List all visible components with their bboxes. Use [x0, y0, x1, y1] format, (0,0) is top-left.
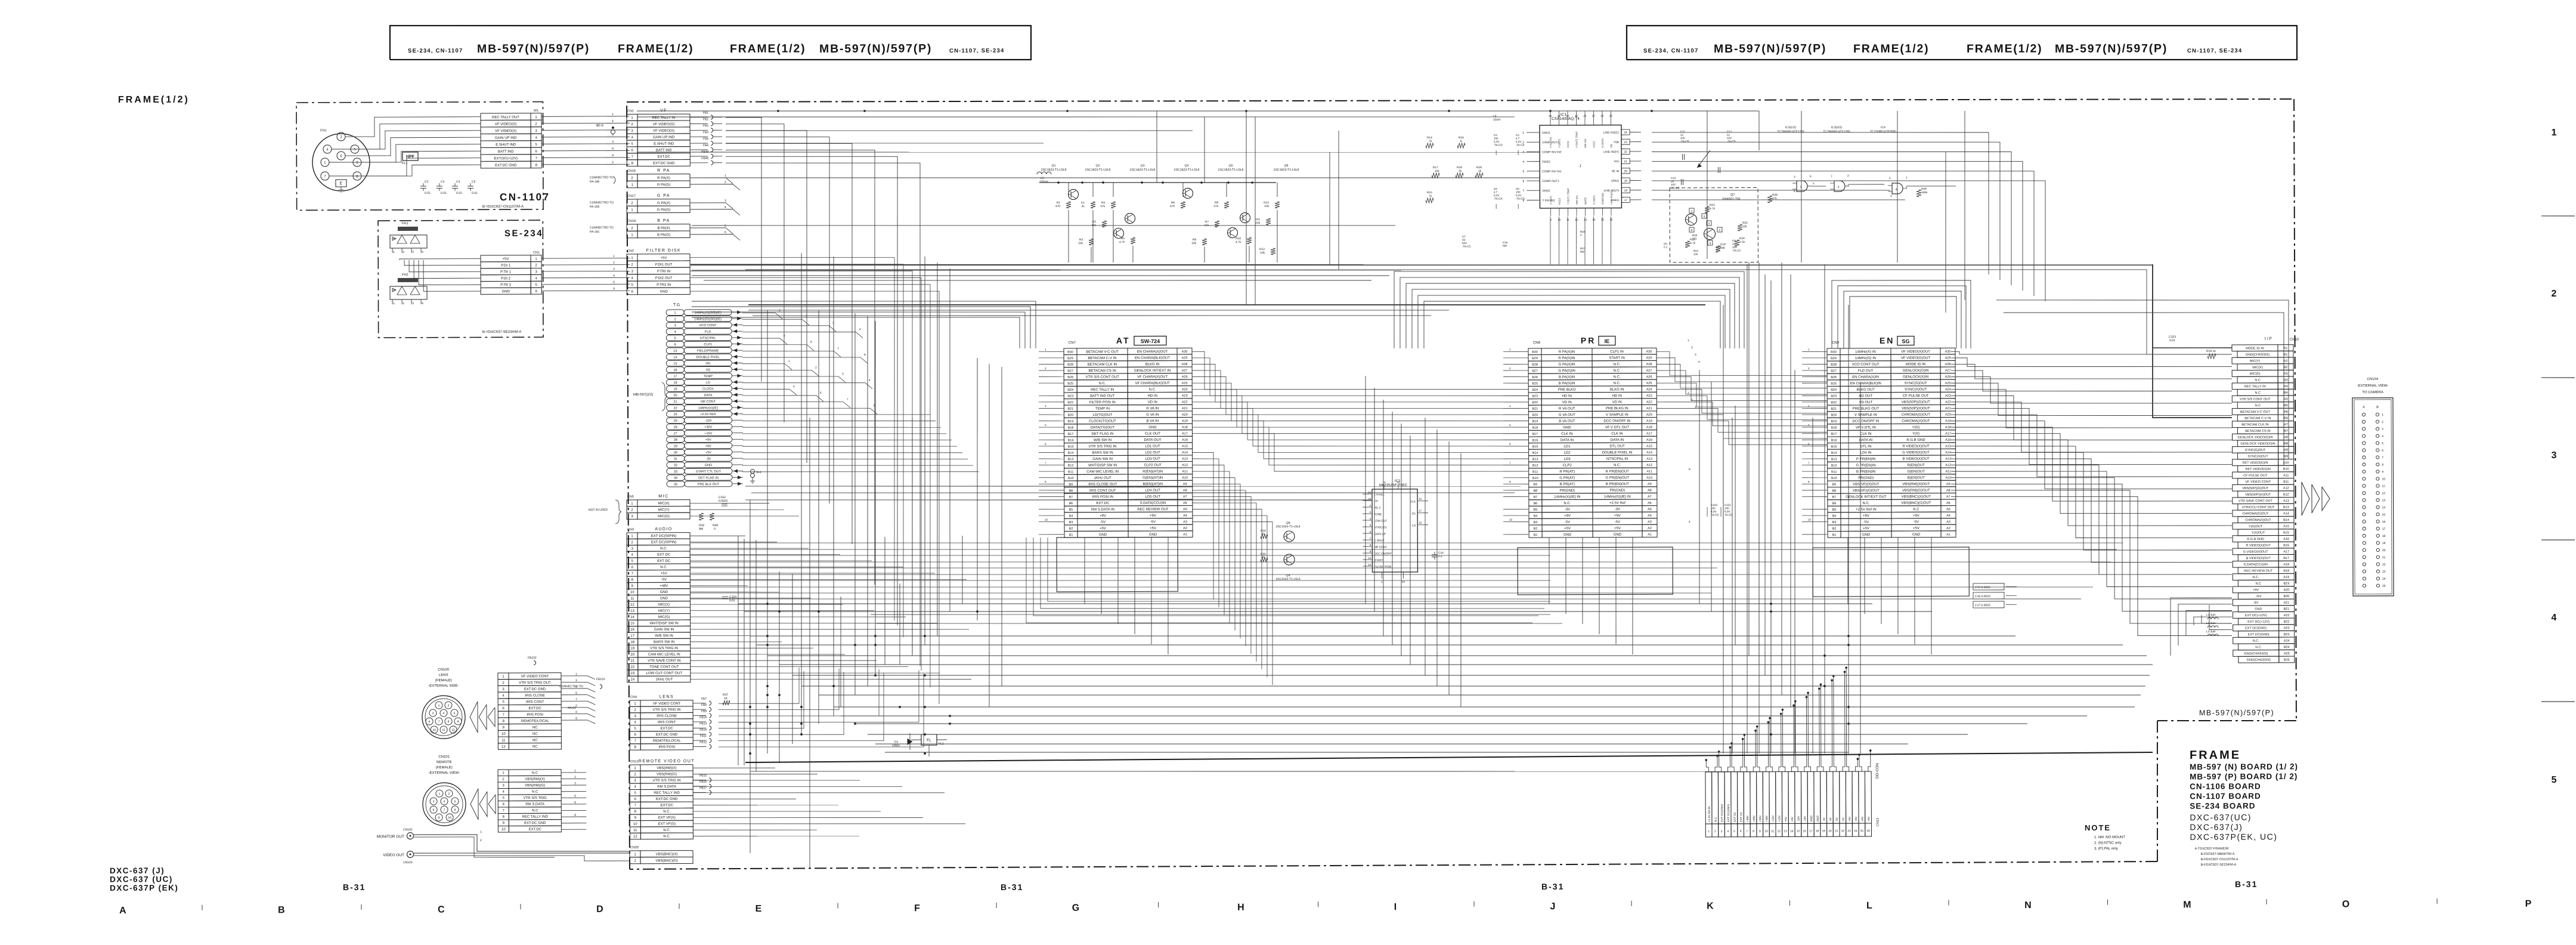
svg-text:A8: A8 — [1183, 489, 1187, 492]
svg-text:VF VIDEO(G)OUT: VF VIDEO(G)OUT — [1901, 357, 1931, 360]
svg-text:WHT/DISP SW IN: WHT/DISP SW IN — [1088, 464, 1117, 468]
svg-text:VBS(BNC)(G): VBS(BNC)(G) — [655, 859, 677, 863]
svg-text:B24: B24 — [1532, 388, 1538, 392]
vertical bundle between PR and EN — [1687, 262, 1792, 708]
svg-text:FLD OUT: FLD OUT — [1858, 369, 1874, 373]
svg-text:CONNECTED TO: CONNECTED TO — [559, 685, 583, 688]
svg-text:B3: B3 — [2284, 378, 2288, 382]
svg-text:5: 5 — [1889, 177, 1891, 180]
svg-text:EXT.DC: EXT.DC — [661, 727, 674, 730]
svg-text:B28: B28 — [1067, 363, 1073, 367]
svg-text:GND(CHASSIS): GND(CHASSIS) — [2247, 659, 2271, 662]
svg-text:PRE BLKG OUT: PRE BLKG OUT — [1853, 407, 1880, 410]
svg-text:F: F — [914, 903, 920, 913]
svg-text:4.7k: 4.7k — [1710, 207, 1716, 211]
svg-text:10: 10 — [432, 728, 436, 732]
svg-text:P.DI 2: P.DI 2 — [501, 277, 511, 280]
svg-text:220uH: 220uH — [1039, 180, 1048, 184]
svg-text:LOW CUT CONT OUT: LOW CUT CONT OUT — [646, 672, 683, 675]
svg-text:D: D — [596, 904, 603, 915]
svg-text:GND: GND — [1810, 815, 1813, 822]
svg-text:B6: B6 — [1069, 502, 1073, 505]
resistors around Q7 — [1685, 203, 1748, 252]
svg-text:CLOCK: CLOCK — [702, 387, 714, 391]
svg-text:1: 1 — [480, 830, 482, 834]
svg-text:EXT.DC GND: EXT.DC GND — [495, 164, 517, 168]
svg-text:SE-234, CN-1107: SE-234, CN-1107 — [1643, 48, 1699, 54]
svg-text:B VA OUT: B VA OUT — [1559, 420, 1575, 424]
svg-text:100: 100 — [1724, 507, 1729, 509]
svg-text:B10: B10 — [1831, 477, 1837, 480]
svg-text:B19: B19 — [2283, 582, 2289, 586]
svg-text:B16: B16 — [1831, 438, 1837, 442]
svg-text:VCO CONT OUT: VCO CONT OUT — [1852, 363, 1880, 366]
caps C11 C12 C13 right of IC1 — [1671, 130, 1736, 190]
svg-text:A1: A1 — [2284, 347, 2288, 350]
svg-text:15: 15 — [1797, 829, 1800, 833]
svg-text:A6: A6 — [1183, 501, 1187, 505]
svg-text:R27: R27 — [1580, 247, 1586, 250]
svg-text:Q7: Q7 — [1730, 193, 1735, 197]
svg-text:D1: D1 — [1412, 512, 1416, 515]
svg-text:R17: R17 — [1433, 166, 1438, 169]
svg-text:B6: B6 — [2284, 416, 2288, 420]
svg-text:Q2: Q2 — [1096, 164, 1100, 168]
svg-text:31: 31 — [674, 458, 677, 461]
svg-text:A8: A8 — [2284, 436, 2288, 439]
svg-text:R26: R26 — [1580, 230, 1586, 233]
svg-text:VD OUT: VD OUT — [1859, 401, 1872, 404]
svg-text:N.C.: N.C. — [660, 566, 667, 569]
svg-text:B23: B23 — [1067, 394, 1073, 398]
svg-text:-10V: -10V — [1797, 816, 1800, 822]
svg-text:+2.5V Ref IN: +2.5V Ref IN — [1856, 508, 1877, 512]
svg-text:22k: 22k — [1255, 221, 1260, 225]
svg-text:CLK: CLK — [1410, 500, 1416, 504]
svg-text:G PA(X): G PA(X) — [657, 202, 670, 205]
svg-text:LD2: LD2 — [1564, 451, 1571, 455]
svg-text:7: 7 — [1808, 462, 1810, 465]
svg-text:2: 2 — [815, 366, 817, 369]
svg-text:0.0022: 0.0022 — [719, 499, 728, 503]
svg-text:A18: A18 — [2283, 563, 2289, 567]
svg-text:A14: A14 — [1646, 451, 1652, 455]
svg-text:EXT.DC: EXT.DC — [661, 804, 674, 807]
svg-text:6: 6 — [1808, 443, 1810, 446]
svg-text:-5V: -5V — [1565, 521, 1570, 524]
svg-text:R21: R21 — [1693, 249, 1699, 252]
svg-text:R VIDEO(X)OUT: R VIDEO(X)OUT — [2246, 544, 2271, 548]
svg-text:-5V: -5V — [1835, 817, 1838, 822]
svg-text:12: 12 — [1368, 557, 1371, 560]
svg-text:M: M — [2183, 900, 2191, 910]
svg-text:S.DATA(CCU)IN: S.DATA(CCU)IN — [2244, 563, 2268, 567]
svg-text:B22: B22 — [1532, 401, 1538, 404]
svg-text:10k: 10k — [1264, 205, 1269, 208]
svg-text:8: 8 — [1808, 480, 1810, 483]
svg-text:A4: A4 — [1648, 514, 1652, 518]
svg-text:6: 6 — [810, 341, 812, 344]
svg-text:C17 0.0022: C17 0.0022 — [1975, 604, 1990, 607]
svg-text:PA-190: PA-190 — [590, 180, 600, 184]
svg-text:10: 10 — [2382, 477, 2385, 481]
svg-text:3: 3 — [612, 140, 614, 144]
svg-text:CLK IN: CLK IN — [1611, 432, 1623, 436]
svg-text:N.C.: N.C. — [1714, 817, 1717, 822]
svg-text:11: 11 — [1566, 218, 1569, 221]
svg-text:GND: GND — [1099, 533, 1107, 537]
svg-text:20: 20 — [630, 653, 634, 657]
svg-text:A14: A14 — [1945, 451, 1951, 455]
svg-text:19: 19 — [630, 647, 634, 650]
svg-text:25: 25 — [2382, 585, 2386, 588]
junction dots on top rail — [777, 110, 779, 112]
cable triangles — [470, 702, 495, 733]
svg-text:B5: B5 — [1534, 508, 1538, 512]
svg-text:BLKG OUT: BLKG OUT — [1857, 388, 1875, 392]
svg-text:N: N — [2024, 900, 2032, 910]
svg-text:CLK IN: CLK IN — [1561, 433, 1572, 436]
svg-text:B VIDEO(X)OUT: B VIDEO(X)OUT — [1903, 458, 1930, 461]
svg-text:B22: B22 — [1831, 401, 1837, 404]
svg-text:MB-597 (N) BOARD (1/ 2): MB-597 (N) BOARD (1/ 2) — [2190, 762, 2298, 771]
svg-text:E.SHUT IND: E.SHUT IND — [654, 142, 674, 146]
svg-text:FRAME(1/2): FRAME(1/2) — [118, 95, 190, 105]
svg-text:A2: A2 — [1946, 527, 1950, 530]
svg-text:470: 470 — [1170, 205, 1175, 208]
svg-text:G OUT2: G OUT2 — [1601, 138, 1604, 147]
svg-text:-EXTERNAL VIEW-: -EXTERNAL VIEW- — [429, 771, 460, 775]
svg-text:MB-597 (P) BOARD (1/ 2): MB-597 (P) BOARD (1/ 2) — [2190, 772, 2298, 782]
svg-text:FILTER POSI: FILTER POSI — [1374, 565, 1391, 569]
svg-text:VF VIDEO(G): VF VIDEO(G) — [495, 123, 517, 126]
svg-text:2: 2 — [612, 160, 614, 164]
svg-text:19: 19 — [2382, 542, 2386, 545]
svg-text:0.1: 0.1 — [1664, 245, 1668, 248]
shield terminal E — [336, 180, 346, 187]
svg-text:VTR S/S TRIG IN: VTR S/S TRIG IN — [653, 708, 681, 712]
svg-text:PA-165: PA-165 — [590, 205, 600, 209]
svg-text:P.TRI IN: P.TRI IN — [657, 270, 670, 273]
svg-text:A20: A20 — [1646, 413, 1652, 417]
svg-text:16: 16 — [630, 628, 634, 632]
svg-text:R.G.B GND: R.G.B GND — [2247, 538, 2264, 541]
svg-text:B3: B3 — [1832, 521, 1837, 524]
svg-text:8: 8 — [2382, 463, 2383, 467]
svg-text:A22: A22 — [1182, 400, 1188, 404]
svg-text:18: 18 — [1816, 829, 1819, 833]
svg-text::TA-CB: :TA-CB — [1727, 140, 1735, 143]
svg-text:1KHz OUT: 1KHz OUT — [655, 678, 673, 681]
svg-text:-EXTERNAL SIDE-: -EXTERNAL SIDE- — [428, 684, 459, 688]
svg-text:A15: A15 — [1945, 444, 1951, 448]
svg-text:P.DI 1: P.DI 1 — [501, 264, 511, 268]
svg-text:R12: R12 — [1259, 248, 1265, 251]
svg-text:HD IN: HD IN — [1612, 394, 1622, 398]
svg-text:B-31: B-31 — [1541, 882, 1564, 891]
svg-text:7: 7 — [1831, 175, 1832, 178]
svg-text:7: 7 — [1509, 462, 1511, 465]
svg-text:+9V: +9V — [1867, 816, 1870, 822]
connector CN8 PR (IE) — [1528, 335, 1657, 538]
svg-text:9: 9 — [1759, 830, 1761, 833]
svg-text:EN CHARA(BLK)IN: EN CHARA(BLK)IN — [1850, 382, 1881, 385]
svg-text:A9: A9 — [1648, 483, 1652, 486]
svg-text:23: 23 — [2382, 570, 2386, 574]
svg-text:REMOTE/LOCAL: REMOTE/LOCAL — [521, 719, 550, 723]
svg-text:COMP INV IN2: COMP INV IN2 — [1542, 150, 1562, 154]
svg-text:22k: 22k — [1078, 242, 1083, 245]
svg-text:VBS(RM)(X)OUT: VBS(RM)(X)OUT — [1902, 483, 1930, 486]
op-amp/encoder IC1 CXA1409AQ-T4 — [1522, 112, 1641, 221]
svg-text:G PR(AT): G PR(AT) — [1559, 477, 1575, 480]
svg-text:CN8: CN8 — [1533, 341, 1541, 345]
svg-text:A22: A22 — [2284, 614, 2290, 617]
svg-text:A11: A11 — [1945, 470, 1950, 474]
svg-text:VF CHARA(BLK)OUT: VF CHARA(BLK)OUT — [1135, 382, 1170, 385]
connector CN103 VIDEO OUT — [383, 851, 413, 865]
svg-text:-3V: -3V — [1615, 508, 1620, 511]
svg-text:+5V: +5V — [1854, 816, 1857, 822]
svg-text:4: 4 — [2551, 613, 2556, 623]
svg-text:18: 18 — [673, 381, 677, 385]
svg-text:CAM MIC LEVEL IN: CAM MIC LEVEL IN — [648, 653, 680, 656]
svg-text:41: 41 — [1082, 205, 1085, 208]
svg-text:28: 28 — [674, 438, 677, 442]
svg-text:L: L — [1866, 901, 1872, 911]
svg-text:A28: A28 — [1945, 363, 1951, 366]
svg-text:VIDEO OUT: VIDEO OUT — [383, 853, 404, 857]
svg-text:NTSC/PAL: NTSC/PAL — [700, 336, 716, 340]
svg-text:0.1k: 0.1k — [1739, 240, 1745, 244]
svg-text:B14: B14 — [2283, 518, 2289, 522]
svg-text:B-FDXC637-CN1107/M-A: B-FDXC637-CN1107/M-A — [2201, 858, 2238, 861]
svg-text:22: 22 — [1624, 150, 1627, 154]
resistors R1-R13 — [1055, 200, 1280, 256]
svg-text:2SC1623-T1-L5L6: 2SC1623-T1-L5L6 — [1130, 168, 1156, 172]
photo interrupter PH2 — [390, 273, 427, 305]
svg-text:MIC(Y): MIC(Y) — [2250, 360, 2261, 363]
svg-text:B26: B26 — [1532, 376, 1538, 379]
svg-text:W/B SW IN: W/B SW IN — [655, 634, 673, 638]
svg-text:EXT DC(50PIN): EXT DC(50PIN) — [651, 541, 677, 544]
svg-text:TEMP: TEMP — [704, 375, 713, 378]
svg-text:C: C — [438, 904, 445, 915]
svg-text:Q4: Q4 — [1185, 164, 1189, 168]
svg-text:14MHz(G)(IE) IN: 14MHz(G)(IE) IN — [1604, 495, 1631, 499]
loops below AT — [1026, 536, 1550, 625]
svg-text:5: 5 — [1813, 182, 1815, 186]
wires CN1 circle to W1 table — [329, 117, 481, 177]
svg-text:10: 10 — [630, 591, 634, 594]
svg-text:C1: C1 — [1081, 201, 1085, 205]
svg-text:EXT DC: EXT DC — [657, 560, 671, 563]
svg-text:MIC(X): MIC(X) — [658, 502, 669, 505]
svg-text:+9V: +9V — [1614, 514, 1621, 518]
svg-text:VF VIDEO CONT: VF VIDEO CONT — [653, 702, 681, 706]
svg-text:B14: B14 — [1068, 452, 1074, 455]
svg-text:NOTE: NOTE — [2085, 823, 2111, 832]
svg-text:MIX IN2: MIX IN2 — [1584, 138, 1587, 148]
svg-text:LENS: LENS — [439, 674, 448, 677]
svg-text:MIC(X): MIC(X) — [658, 603, 670, 607]
svg-text:A16: A16 — [2283, 538, 2289, 541]
svg-text:LD: LD — [706, 381, 710, 385]
svg-text:15: 15 — [1601, 218, 1605, 221]
svg-text:4: 4 — [1698, 360, 1700, 364]
svg-text:GND: GND — [660, 591, 668, 594]
svg-text:A19: A19 — [1945, 419, 1951, 423]
svg-text:11: 11 — [1397, 481, 1400, 484]
svg-text:-5V: -5V — [2253, 601, 2259, 605]
svg-text:P: P — [2525, 899, 2532, 909]
svg-text:B5: B5 — [1069, 508, 1073, 512]
svg-text:B10: B10 — [1532, 477, 1538, 480]
svg-text:CN16: CN16 — [627, 169, 636, 173]
svg-text:A3: A3 — [1183, 520, 1187, 524]
svg-text:B19: B19 — [1831, 420, 1837, 424]
svg-text:VCO CONT: VCO CONT — [699, 324, 717, 328]
svg-text:10V: 10V — [1680, 137, 1685, 140]
svg-text:1: 1 — [574, 769, 576, 773]
svg-text:B26: B26 — [1831, 376, 1837, 379]
svg-text:DXC-637P(EK, UC): DXC-637P(EK, UC) — [2190, 832, 2277, 842]
svg-text:REC TALLY OUT: REC TALLY OUT — [492, 116, 519, 119]
bold rail corner into I/F A1 — [2152, 265, 2231, 348]
svg-text:A29: A29 — [1646, 356, 1652, 360]
svg-text:A21: A21 — [1646, 407, 1652, 410]
svg-text:A24: A24 — [1182, 388, 1188, 391]
svg-text:-5V: -5V — [1100, 521, 1106, 524]
svg-text:IRIS CLOSE: IRIS CLOSE — [657, 715, 677, 718]
svg-text:RET VIDEO(X)IN: RET VIDEO(X)IN — [2245, 468, 2270, 471]
svg-text:+5V: +5V — [1150, 527, 1156, 530]
svg-text:G VIDEO(X)OUT: G VIDEO(X)OUT — [1902, 451, 1930, 455]
svg-text:B15: B15 — [1532, 445, 1538, 449]
svg-text:B-YDXC637-SE234/M-A: B-YDXC637-SE234/M-A — [482, 331, 521, 334]
svg-text:2: 2 — [1691, 399, 1693, 402]
svg-text:PH1: PH1 — [402, 222, 408, 226]
svg-text:B PA(X)IN: B PA(X)IN — [1559, 376, 1575, 379]
svg-text:MIC(Y): MIC(Y) — [658, 609, 670, 613]
svg-text:5: 5 — [1704, 215, 1705, 218]
svg-text:B25: B25 — [1532, 382, 1538, 385]
svg-text:22: 22 — [630, 666, 634, 669]
svg-text:FB4: FB4 — [703, 131, 708, 134]
svg-text:24: 24 — [2382, 577, 2386, 581]
svg-text:2SC1623-T1-L5L6: 2SC1623-T1-L5L6 — [1041, 168, 1067, 172]
svg-text:+5V: +5V — [1863, 527, 1869, 530]
svg-text:NM: NM — [1720, 246, 1724, 250]
svg-text:CN1: CN1 — [627, 109, 634, 113]
svg-text:1: 1 — [1906, 176, 1908, 180]
svg-text:C6: C6 — [1516, 187, 1519, 190]
connector table CN100 — [498, 673, 561, 750]
svg-text:2: 2 — [613, 261, 615, 265]
svg-text:START CTL OUT: START CTL OUT — [696, 470, 722, 474]
svg-text:A4: A4 — [1183, 514, 1187, 518]
svg-text:PRE BLKG IN: PRE BLKG IN — [1606, 407, 1628, 410]
svg-text:VBS(50P)(G)OUT: VBS(50P)(G)OUT — [1902, 401, 1930, 404]
svg-text:10: 10 — [1509, 518, 1513, 521]
svg-text:21: 21 — [1835, 829, 1838, 833]
svg-text:IC3(2/2): IC3(2/2) — [1831, 126, 1842, 129]
svg-text:8: 8 — [574, 814, 576, 817]
svg-text:0.01: 0.01 — [425, 192, 431, 195]
svg-text:NC: NC — [532, 726, 538, 730]
svg-text:DXC-637P (EK): DXC-637P (EK) — [110, 884, 178, 892]
risers from buses to I/F lower rows — [2171, 598, 2233, 656]
svg-text:20: 20 — [673, 394, 677, 397]
svg-text:25: 25 — [1860, 829, 1864, 833]
svg-text:CONNECTED TO: CONNECTED TO — [590, 226, 614, 230]
svg-text:24: 24 — [674, 413, 677, 416]
svg-text::TA-CA: :TA-CA — [1494, 197, 1502, 200]
svg-text:IRIS CONT: IRIS CONT — [658, 721, 676, 724]
EN to I/F staircase wires — [1950, 351, 2233, 637]
svg-text:+9V: +9V — [2253, 588, 2259, 592]
svg-text:IC3(1/2): IC3(1/2) — [1785, 126, 1796, 129]
svg-text:N.C.: N.C. — [660, 547, 667, 551]
AT left pin stubs — [1038, 345, 1828, 538]
svg-text:EXT DC(50PIN): EXT DC(50PIN) — [651, 535, 677, 538]
svg-text:2SC1623-T1-L5L6: 2SC1623-T1-L5L6 — [1275, 525, 1300, 529]
connector CN100 LENS female — [422, 668, 465, 739]
svg-text:VBS(BNC)(G)OUT: VBS(BNC)(G)OUT — [1901, 502, 1931, 505]
svg-text:B22: B22 — [2284, 620, 2290, 624]
svg-text:VF VIDEO(X)OUT: VF VIDEO(X)OUT — [1901, 350, 1930, 354]
svg-text:1: 1 — [438, 704, 440, 708]
ic IC2 M62352SP-T5EC — [1363, 480, 1429, 583]
svg-text:A13: A13 — [1945, 458, 1951, 461]
svg-text:GND(CHASSIS): GND(CHASSIS) — [2246, 353, 2270, 357]
svg-text:REC REVIEW OUT: REC REVIEW OUT — [2244, 569, 2273, 573]
svg-text:DXC-637(UC): DXC-637(UC) — [2190, 813, 2252, 822]
svg-text:GAIN UP IND: GAIN UP IND — [653, 136, 675, 140]
svg-text:20: 20 — [1402, 580, 1405, 583]
svg-text:B18: B18 — [1532, 426, 1538, 430]
svg-text:N.C.: N.C. — [663, 810, 670, 814]
svg-text:SYNC(G)OUT: SYNC(G)OUT — [2245, 449, 2266, 452]
svg-text:CN4: CN4 — [630, 696, 637, 699]
svg-text:E.SHUT: E.SHUT — [1374, 539, 1385, 542]
svg-text:COMP INV IN1: COMP INV IN1 — [1542, 170, 1562, 174]
svg-text:LINE IN1(C): LINE IN1(C) — [1610, 190, 1613, 204]
svg-text:FB102: FB102 — [528, 656, 537, 660]
svg-text:B29: B29 — [1831, 357, 1837, 360]
svg-text:A6: A6 — [2284, 410, 2288, 414]
svg-text:B17: B17 — [1068, 433, 1074, 436]
svg-text:B20: B20 — [1831, 413, 1837, 417]
svg-text:A29: A29 — [1182, 356, 1188, 360]
wires W1 table to VF connector — [541, 113, 630, 165]
svg-text:A15: A15 — [1646, 444, 1652, 448]
svg-text:LENS: LENS — [660, 695, 674, 699]
svg-text:A20: A20 — [2283, 588, 2289, 592]
svg-text:B24: B24 — [1067, 388, 1073, 392]
svg-text:A17: A17 — [1945, 432, 1951, 436]
svg-text:4: 4 — [1808, 404, 1810, 407]
svg-text:A26: A26 — [1182, 375, 1188, 379]
svg-text:3: 3 — [412, 302, 414, 305]
svg-text:B5: B5 — [2284, 404, 2288, 407]
svg-text:Y0B: Y0B — [1614, 141, 1619, 144]
svg-text:14: 14 — [2382, 506, 2386, 509]
connector CN5 MIC — [627, 495, 690, 520]
svg-text:FB16: FB16 — [699, 780, 707, 784]
svg-text:+5V: +5V — [1784, 816, 1787, 822]
filter FL1 — [911, 734, 947, 756]
